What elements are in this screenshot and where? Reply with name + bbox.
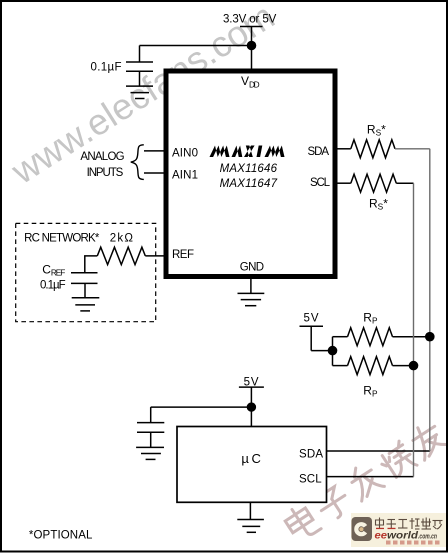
svg-text:2kΩ: 2kΩ xyxy=(110,233,134,245)
svg-text:0.1µF: 0.1µF xyxy=(91,62,122,74)
svg-text:5V: 5V xyxy=(304,312,319,324)
svg-text:3.3V or 5V: 3.3V or 5V xyxy=(223,14,277,26)
svg-text:eeworld.com.cn: eeworld.com.cn xyxy=(375,529,438,541)
svg-text:ANALOG: ANALOG xyxy=(80,151,124,163)
svg-text:SCL: SCL xyxy=(299,473,322,485)
svg-text:INPUTS: INPUTS xyxy=(87,167,124,179)
svg-text:GND: GND xyxy=(240,261,264,273)
svg-text:0.1µF: 0.1µF xyxy=(40,279,66,291)
svg-text:MAX11646: MAX11646 xyxy=(220,163,278,175)
svg-text:5V: 5V xyxy=(244,376,259,388)
svg-text:RC NETWORK*: RC NETWORK* xyxy=(24,233,100,245)
svg-text:REF: REF xyxy=(172,249,194,261)
svg-text:AIN1: AIN1 xyxy=(172,170,198,182)
svg-text:*OPTIONAL: *OPTIONAL xyxy=(29,529,93,541)
svg-text:MAX11647: MAX11647 xyxy=(220,178,278,190)
svg-text:SCL: SCL xyxy=(310,177,331,189)
svg-text:SDA: SDA xyxy=(299,448,323,460)
svg-text:SDA: SDA xyxy=(308,146,330,158)
svg-text:µC: µC xyxy=(241,451,261,466)
svg-text:AIN0: AIN0 xyxy=(172,147,198,159)
